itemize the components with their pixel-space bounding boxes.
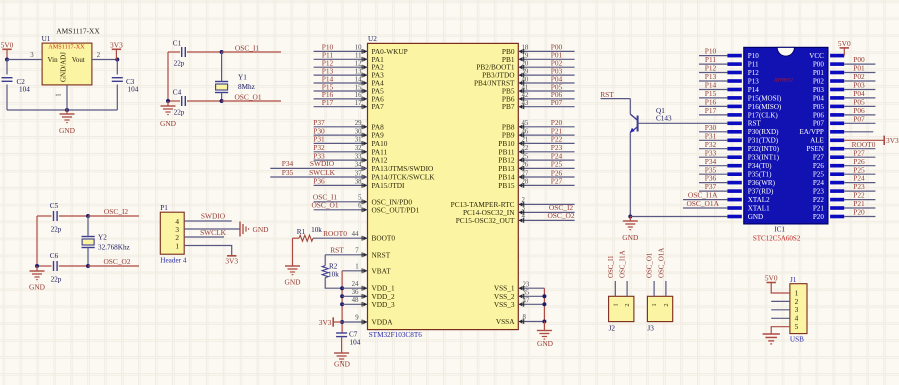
svg-text:13: 13 bbox=[355, 68, 362, 75]
wire net P14 bbox=[314, 82, 368, 84]
svg-text:10: 10 bbox=[355, 45, 362, 52]
wire gnd rail bbox=[7, 109, 117, 111]
wire 5V0 to U1 Vin bbox=[7, 59, 42, 61]
svg-text:20: 20 bbox=[522, 61, 529, 68]
IC1 pin stub right P05 bbox=[830, 105, 844, 109]
svg-text:R2: R2 bbox=[329, 263, 338, 271]
pin marker PA8 bbox=[362, 124, 367, 129]
junction gnd rail bbox=[65, 108, 69, 112]
svg-text:1: 1 bbox=[56, 93, 63, 96]
pin marker PB3/JTDO bbox=[519, 73, 524, 78]
svg-text:J3: J3 bbox=[647, 325, 654, 333]
junction OSC_O2 left bbox=[86, 264, 90, 268]
svg-text:Vout: Vout bbox=[72, 56, 85, 64]
wire Y2 bottom stub bbox=[87, 248, 89, 267]
svg-text:7: 7 bbox=[355, 247, 359, 254]
svg-text:P00: P00 bbox=[813, 61, 824, 69]
wire net P01 bbox=[518, 58, 574, 60]
svg-text:36: 36 bbox=[352, 289, 359, 296]
wire net P22 bbox=[518, 142, 574, 144]
capacitor C4 bbox=[182, 96, 186, 106]
wire Y2 rail top bbox=[37, 215, 52, 217]
svg-text:RST: RST bbox=[600, 90, 614, 99]
svg-text:PC15-OSC32_OUT: PC15-OSC32_OUT bbox=[456, 216, 515, 225]
wire IC1 PSEN ROOT0 bbox=[844, 148, 875, 150]
pin marker VSS_1 bbox=[519, 286, 524, 291]
wire C6 to node bbox=[59, 265, 88, 267]
IC1 pin stub left RST bbox=[727, 122, 741, 126]
svg-text:P36: P36 bbox=[313, 177, 325, 186]
junction VSS2 bbox=[542, 294, 546, 298]
svg-text:2: 2 bbox=[663, 303, 670, 306]
IC1 pin stub right P07 bbox=[830, 122, 844, 126]
pin marker BOOT0 bbox=[362, 236, 367, 241]
IC1 pin stub left P37(RD) bbox=[727, 189, 741, 193]
wire usb pin3 bbox=[771, 309, 790, 311]
wire net P27 bbox=[518, 184, 574, 186]
wire VSS rail bbox=[543, 288, 545, 321]
wire Q1 emitter down bbox=[629, 133, 631, 217]
wire C7 to gnd bbox=[341, 337, 343, 353]
pin marker VSS_3 bbox=[519, 302, 524, 307]
svg-text:P27: P27 bbox=[551, 177, 563, 186]
junction OSC_I1 bbox=[220, 50, 224, 54]
wire net P20 bbox=[518, 126, 574, 128]
power 5V0 ic1 bar bbox=[840, 47, 849, 49]
svg-text:46: 46 bbox=[522, 128, 529, 135]
svg-text:10k: 10k bbox=[328, 271, 339, 279]
svg-text:GND: GND bbox=[29, 283, 46, 292]
svg-text:OSC_O2: OSC_O2 bbox=[103, 257, 130, 266]
IC1 pin stub right EA/VPP bbox=[830, 130, 844, 134]
pin marker VDD_3 bbox=[362, 302, 367, 307]
svg-text:29: 29 bbox=[355, 120, 362, 127]
svg-text:AMS1117-XX: AMS1117-XX bbox=[56, 27, 100, 36]
wire IC1 P02 bbox=[844, 80, 875, 82]
IC1 pin stub left GND bbox=[727, 215, 741, 219]
wire net P07 bbox=[518, 106, 574, 108]
wire RST vert bbox=[629, 99, 631, 115]
svg-text:OSC_I1A: OSC_I1A bbox=[620, 250, 627, 278]
IC1 pin stub right P25 bbox=[830, 172, 844, 176]
svg-text:P17: P17 bbox=[322, 98, 334, 107]
wire IC1 P23 bbox=[844, 190, 875, 192]
junction VDDA bbox=[340, 320, 344, 324]
IC1 pin stub left P11 bbox=[727, 62, 741, 66]
svg-text:6: 6 bbox=[358, 203, 362, 210]
regulator U1 body bbox=[42, 43, 92, 85]
IC1 pin stub left P16(MISO) bbox=[727, 105, 741, 109]
junction OSC_O1 bbox=[220, 99, 224, 103]
svg-text:26: 26 bbox=[522, 162, 529, 169]
wire usb pin2 bbox=[771, 300, 790, 302]
power 3V3 mid stub bbox=[333, 321, 342, 323]
pin marker PC13 bbox=[519, 202, 524, 207]
wire IC1 P35 bbox=[699, 173, 727, 175]
svg-text:9: 9 bbox=[355, 315, 359, 322]
IC1 pin stub right PSEN bbox=[830, 147, 844, 151]
svg-text:43: 43 bbox=[522, 100, 529, 107]
wire net P24 bbox=[518, 159, 574, 161]
IC1 pin stub right P24 bbox=[830, 181, 844, 185]
svg-text:2: 2 bbox=[624, 303, 631, 306]
svg-text:P37(RD): P37(RD) bbox=[748, 188, 774, 196]
transistor Q1 bbox=[630, 114, 638, 132]
wire VDD_3 bbox=[342, 303, 367, 305]
IC1 pin stub right P00 bbox=[830, 62, 844, 66]
svg-text:U1: U1 bbox=[42, 35, 51, 43]
power 3V3 stub bbox=[115, 49, 117, 59]
pin marker OSC_IN bbox=[362, 199, 367, 204]
svg-text:3: 3 bbox=[30, 52, 34, 59]
wire VBAT bbox=[342, 270, 367, 272]
svg-text:3V3: 3V3 bbox=[319, 318, 332, 327]
pin marker PB4/JNTRST bbox=[519, 81, 524, 86]
svg-text:ROOT0: ROOT0 bbox=[323, 229, 347, 238]
IC1 pin stub left P15(MOSI) bbox=[727, 96, 741, 100]
wire IC1 ALE 3V3 bbox=[844, 139, 884, 141]
svg-text:SWCLK: SWCLK bbox=[309, 168, 336, 177]
svg-text:17: 17 bbox=[355, 100, 362, 107]
junction VDD2 bbox=[340, 294, 344, 298]
wire IC1 P33 bbox=[699, 156, 727, 158]
svg-text:P35: P35 bbox=[282, 168, 294, 177]
svg-text:P02: P02 bbox=[813, 77, 824, 85]
wire Y1 left rail top bbox=[168, 51, 180, 53]
pin marker PA10 bbox=[362, 141, 367, 146]
svg-text:22p: 22p bbox=[174, 59, 185, 67]
capacitor C5 bbox=[54, 211, 58, 221]
pin marker PB9 bbox=[519, 133, 524, 138]
svg-text:104: 104 bbox=[19, 86, 30, 94]
svg-text:P17: P17 bbox=[705, 106, 717, 115]
junction Y2 gnd bbox=[35, 264, 39, 268]
power 3V3 bar P1 bbox=[227, 255, 236, 257]
svg-text:10k: 10k bbox=[311, 226, 322, 234]
svg-text:12: 12 bbox=[355, 61, 362, 68]
wire gnd to IC1 bbox=[630, 216, 727, 218]
wire J2 pin1 bbox=[614, 281, 616, 296]
svg-text:24: 24 bbox=[352, 281, 359, 288]
svg-text:5V0: 5V0 bbox=[765, 274, 778, 283]
svg-text:P32(INT0): P32(INT0) bbox=[748, 145, 780, 153]
header J2 body bbox=[609, 296, 634, 321]
svg-text:VSS_3: VSS_3 bbox=[494, 300, 515, 309]
wire R1 to gnd bbox=[292, 238, 294, 266]
svg-text:GND: GND bbox=[59, 126, 76, 135]
svg-text:22p: 22p bbox=[51, 276, 62, 284]
wire net P05 bbox=[518, 90, 574, 92]
pin marker PB2/BOOT1 bbox=[519, 65, 524, 70]
pin marker PA3 bbox=[362, 73, 367, 78]
ground C7 bbox=[334, 353, 349, 362]
crystal Y1 bbox=[215, 82, 228, 93]
wire IC1 P24 bbox=[844, 182, 875, 184]
wire IC1 P07 bbox=[844, 122, 875, 124]
junction 3V3/C3 bbox=[115, 58, 119, 62]
wire SWCLK bbox=[184, 236, 224, 238]
svg-text:P20: P20 bbox=[813, 213, 824, 221]
wire net P30 bbox=[314, 134, 368, 136]
IC1 pin stub right P03 bbox=[830, 88, 844, 92]
wire IC1 XTAL1 bbox=[683, 207, 727, 209]
svg-text:32.768Khz: 32.768Khz bbox=[98, 243, 130, 251]
svg-text:5: 5 bbox=[358, 195, 362, 202]
svg-text:P15(MOSI): P15(MOSI) bbox=[748, 94, 782, 102]
wire Y2 top stub bbox=[87, 216, 89, 237]
wire usb pin4 bbox=[771, 317, 790, 319]
wire OSC_I1 label bbox=[222, 51, 281, 53]
ground Q1 bbox=[623, 221, 638, 230]
resistor R1 bbox=[299, 235, 313, 241]
wire net P13 bbox=[314, 74, 368, 76]
wire IC1 P14 bbox=[699, 89, 727, 91]
svg-text:16: 16 bbox=[355, 92, 362, 99]
wire OSC_O1 label bbox=[222, 100, 281, 102]
svg-text:OSC_O1A: OSC_O1A bbox=[658, 248, 665, 278]
IC1 pin stub right P20 bbox=[830, 215, 844, 219]
svg-text:VCC: VCC bbox=[809, 52, 824, 60]
svg-text:STM32F103C8T6: STM32F103C8T6 bbox=[369, 331, 423, 339]
wire IC1 P22 bbox=[844, 199, 875, 201]
IC1 pin stub right VCC bbox=[830, 54, 844, 58]
svg-text:5V0: 5V0 bbox=[1, 41, 14, 50]
svg-text:P31(TXD): P31(TXD) bbox=[748, 137, 779, 145]
IC1 pin stub right P22 bbox=[830, 198, 844, 202]
wire VSSA bbox=[518, 321, 544, 323]
IC1 pin stub right P06 bbox=[830, 113, 844, 117]
power 5V0 bar bbox=[2, 48, 11, 50]
gnd stub VSS bbox=[543, 322, 545, 331]
svg-text:GND: GND bbox=[537, 339, 554, 348]
wire C2 upper bbox=[6, 60, 8, 75]
wire J2 pin2 bbox=[626, 281, 628, 296]
svg-text:104: 104 bbox=[350, 338, 361, 346]
svg-text:R1: R1 bbox=[297, 228, 306, 236]
svg-text:18: 18 bbox=[522, 45, 529, 52]
wire IC1 P31 bbox=[699, 139, 727, 141]
IC1 pin stub left XTAL2 bbox=[727, 198, 741, 202]
gnd stub U1 bbox=[66, 110, 68, 114]
svg-text:OSC_I1: OSC_I1 bbox=[608, 255, 615, 278]
pin marker PA13/JTMS/SWDIO bbox=[362, 166, 367, 171]
wire IC1 P27 bbox=[844, 156, 875, 158]
svg-text:42: 42 bbox=[522, 92, 529, 99]
pin marker PA7 bbox=[362, 104, 367, 109]
wire net SWDIO bbox=[270, 167, 367, 169]
junction VDD3 bbox=[340, 302, 344, 306]
svg-text:P03: P03 bbox=[813, 86, 824, 94]
pin marker PA5 bbox=[362, 89, 367, 94]
wire PC13 stub bbox=[518, 203, 574, 205]
wire C5 to node bbox=[59, 215, 88, 217]
svg-text:OSC_O2: OSC_O2 bbox=[547, 211, 574, 220]
wire Q1 base to IC1 RST bbox=[638, 122, 728, 124]
svg-text:28: 28 bbox=[522, 179, 529, 186]
svg-text:P1: P1 bbox=[160, 204, 168, 212]
wire IC1 P17 bbox=[699, 114, 727, 116]
svg-text:31: 31 bbox=[355, 137, 362, 144]
svg-text:C6: C6 bbox=[50, 252, 59, 260]
svg-text:RST: RST bbox=[748, 120, 762, 128]
pin marker PA2 bbox=[362, 65, 367, 70]
svg-text:14: 14 bbox=[355, 76, 362, 83]
pin marker PB15 bbox=[519, 183, 524, 188]
resistor R2 bbox=[322, 266, 328, 278]
svg-text:34: 34 bbox=[355, 162, 362, 169]
svg-text:1: 1 bbox=[355, 263, 358, 270]
pin marker PA1 bbox=[362, 57, 367, 62]
wire IC1 P32 bbox=[699, 148, 727, 150]
pin marker PA14/JTCK/SWCLK bbox=[362, 175, 367, 180]
power 3V3 bar bbox=[112, 48, 121, 50]
power 5V0 usb bar bbox=[767, 282, 776, 284]
wire ROOT0 bbox=[313, 237, 368, 239]
IC1 pin stub right P26 bbox=[830, 164, 844, 168]
svg-text:GND/ADJ: GND/ADJ bbox=[60, 52, 68, 82]
svg-text:XTAL2: XTAL2 bbox=[748, 196, 770, 204]
svg-text:104: 104 bbox=[128, 86, 139, 94]
svg-text:NRST: NRST bbox=[372, 250, 391, 259]
wire Y1 bottom stub bbox=[221, 93, 223, 102]
wire IC1 P34 bbox=[699, 165, 727, 167]
svg-text:P22: P22 bbox=[813, 196, 824, 204]
svg-text:27: 27 bbox=[522, 170, 529, 177]
U1 pin1 wire bbox=[66, 85, 68, 110]
svg-text:P17(CLK): P17(CLK) bbox=[748, 111, 779, 119]
wire net P06 bbox=[518, 98, 574, 100]
pin marker PA12 bbox=[362, 158, 367, 163]
wire IC1 P37 bbox=[699, 190, 727, 192]
svg-text:3V3: 3V3 bbox=[886, 136, 899, 145]
svg-text:OSC_I2: OSC_I2 bbox=[104, 207, 129, 216]
IC1 pin stub right P02 bbox=[830, 79, 844, 83]
junction VDD1 bbox=[340, 286, 344, 290]
wire IC1 P36 bbox=[699, 182, 727, 184]
gnd stub Q1 bbox=[629, 217, 631, 222]
IC1 pin stub right P21 bbox=[830, 206, 844, 210]
svg-text:38: 38 bbox=[355, 179, 362, 186]
pin marker PA9 bbox=[362, 133, 367, 138]
IC1 pin stub right P27 bbox=[830, 155, 844, 159]
svg-text:3V3: 3V3 bbox=[110, 41, 123, 50]
svg-text:19: 19 bbox=[522, 53, 529, 60]
capacitor C6 bbox=[54, 261, 58, 271]
svg-text:32: 32 bbox=[355, 145, 362, 152]
pin marker PB14 bbox=[519, 175, 524, 180]
wire VSS_1 bbox=[518, 287, 544, 289]
pin marker NRST bbox=[362, 252, 367, 257]
wire net P16 bbox=[314, 98, 368, 100]
svg-text:OSC_O1: OSC_O1 bbox=[647, 252, 654, 278]
pin marker PB6 bbox=[519, 97, 524, 102]
svg-text:P24: P24 bbox=[813, 179, 824, 187]
svg-text:P34(T0): P34(T0) bbox=[748, 162, 772, 170]
pin marker PB12 bbox=[519, 158, 524, 163]
svg-text:1: 1 bbox=[612, 303, 619, 306]
wire net P25 bbox=[518, 167, 574, 169]
junction Y1 gnd bbox=[166, 99, 170, 103]
wire IC1 P00 bbox=[844, 63, 875, 65]
IC1 pin stub left P14 bbox=[727, 88, 741, 92]
wire net SWCLK bbox=[270, 176, 367, 178]
svg-text:21: 21 bbox=[522, 137, 529, 144]
pin marker VDD_1 bbox=[362, 286, 367, 291]
pin marker PB1 bbox=[519, 57, 524, 62]
svg-text:C5: C5 bbox=[50, 202, 59, 210]
svg-text:EA/VPP: EA/VPP bbox=[799, 128, 823, 136]
svg-text:39: 39 bbox=[522, 68, 529, 75]
wire IC1 P16 bbox=[699, 105, 727, 107]
pin marker PC14 bbox=[519, 210, 524, 215]
gnd stub Y1 bbox=[167, 101, 169, 106]
svg-text:P25: P25 bbox=[813, 171, 824, 179]
svg-text:P05: P05 bbox=[813, 103, 824, 111]
svg-text:22p: 22p bbox=[51, 226, 62, 234]
wire IC1 P21 bbox=[844, 207, 875, 209]
svg-text:OSC_O1: OSC_O1 bbox=[234, 92, 261, 101]
ground P1 bbox=[240, 222, 249, 237]
IC1 notch bbox=[777, 47, 794, 56]
wire net P03 bbox=[518, 74, 574, 76]
svg-text:1: 1 bbox=[651, 303, 658, 306]
wire net OSC_I2 u2 bbox=[518, 211, 574, 213]
svg-text:C143: C143 bbox=[656, 115, 672, 123]
wire C2 lower bbox=[6, 85, 8, 111]
wire IC1 P30 bbox=[699, 131, 727, 133]
wire IC1 P05 bbox=[844, 105, 875, 107]
pin marker PB8 bbox=[519, 124, 524, 129]
wire VDD_1 bbox=[342, 287, 367, 289]
svg-text:P07: P07 bbox=[551, 98, 563, 107]
svg-text:VDDA: VDDA bbox=[372, 318, 394, 327]
svg-text:IC1: IC1 bbox=[774, 225, 785, 233]
svg-text:Y1: Y1 bbox=[238, 74, 247, 82]
svg-text:P06: P06 bbox=[813, 111, 824, 119]
svg-text:VBAT: VBAT bbox=[372, 266, 392, 275]
capacitor C2 bbox=[2, 78, 13, 82]
svg-text:GND: GND bbox=[253, 225, 270, 234]
IC1 pin stub left P12 bbox=[727, 71, 741, 75]
svg-text:25: 25 bbox=[522, 153, 529, 160]
svg-text:5: 5 bbox=[795, 322, 799, 331]
svg-text:GND: GND bbox=[334, 360, 351, 369]
svg-text:OSC_O1: OSC_O1 bbox=[311, 201, 338, 210]
svg-text:VDD_3: VDD_3 bbox=[372, 300, 395, 309]
wire IC1 XTAL2 bbox=[683, 199, 727, 201]
wire rail to C4 bbox=[168, 100, 180, 102]
capacitor C3 bbox=[112, 78, 123, 82]
svg-text:C1: C1 bbox=[173, 39, 182, 47]
IC1 pin stub left P31(TXD) bbox=[727, 139, 741, 143]
svg-text:37: 37 bbox=[355, 170, 362, 177]
pin marker PB0 bbox=[519, 49, 524, 54]
IC1 pin stub right P23 bbox=[830, 189, 844, 193]
wire net P32 bbox=[314, 151, 368, 153]
pin marker VSSA bbox=[519, 319, 524, 324]
wire net P37 bbox=[314, 126, 368, 128]
svg-text:GND: GND bbox=[748, 213, 763, 221]
mcu U2 body bbox=[368, 43, 519, 329]
pin marker PB13 bbox=[519, 166, 524, 171]
pin marker PA15/JTDI bbox=[362, 183, 367, 188]
svg-text:XTAL1: XTAL1 bbox=[748, 204, 770, 212]
pin marker PB5 bbox=[519, 89, 524, 94]
wire net P33 bbox=[314, 159, 368, 161]
wire R1 left bbox=[293, 237, 300, 239]
svg-text:2: 2 bbox=[97, 52, 101, 59]
wire IC1 EA/VPP bbox=[844, 131, 873, 133]
